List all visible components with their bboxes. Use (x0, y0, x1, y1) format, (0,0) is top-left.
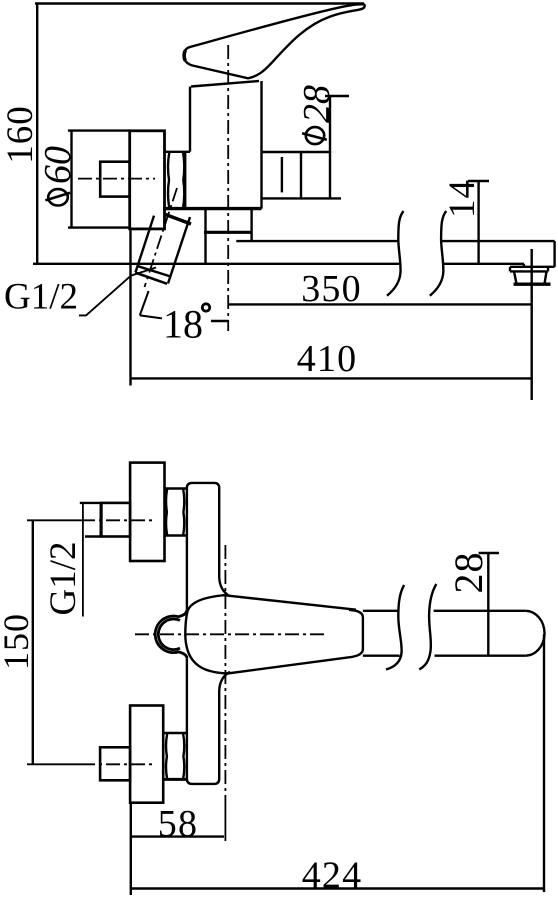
svg-text:14: 14 (442, 179, 483, 218)
svg-text:G1/2: G1/2 (4, 277, 78, 318)
svg-text:60: 60 (37, 146, 79, 184)
svg-text:G1/2: G1/2 (43, 542, 84, 616)
svg-text:160: 160 (0, 105, 41, 164)
svg-text:424: 424 (302, 855, 363, 897)
svg-text:58: 58 (158, 803, 198, 845)
svg-text:410: 410 (297, 338, 358, 380)
svg-text:350: 350 (301, 268, 362, 310)
svg-text:150: 150 (0, 613, 36, 670)
svg-text:28: 28 (296, 85, 338, 123)
svg-text:18: 18 (163, 302, 203, 347)
svg-text:28: 28 (446, 552, 491, 594)
